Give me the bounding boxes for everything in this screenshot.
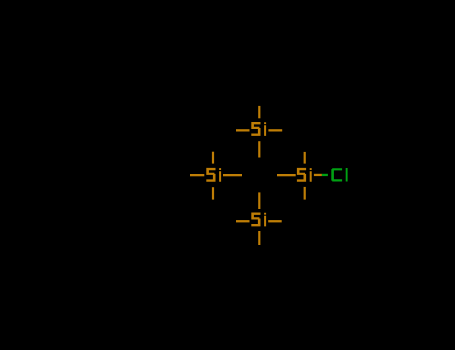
atom Cl1 (chlorine) label "Cl" — [331, 168, 347, 182]
atom Si1 (top silicon) label "Si" — [251, 122, 266, 136]
atom Si2 (left silicon) label "Si" — [206, 168, 221, 182]
bond Si4-CH3 right — [268, 220, 282, 222]
atom Si3 (right silicon) label "Si" — [297, 168, 312, 182]
bond Si3-Cl green half — [322, 174, 328, 176]
bond Si1-CH3 left — [236, 129, 250, 131]
bond Si2-CH3 left — [190, 174, 204, 176]
bond C-Si3 left — [277, 174, 296, 176]
atom Si4 (bottom silicon) label "Si" — [251, 213, 266, 227]
bond Si2-CH3 up — [212, 152, 214, 164]
bond Si3-CH3 up — [304, 152, 306, 164]
bond Si4-CH3 left — [236, 220, 250, 222]
bond Si2-CH3 down — [212, 187, 214, 199]
bond Si1-C down — [258, 141, 260, 157]
bond Si3-Cl orange half — [314, 174, 322, 176]
bond Si4-CH3 down — [258, 231, 260, 245]
bond Si2-C right — [223, 174, 242, 176]
bond Si1-CH3 right — [268, 129, 282, 131]
bond C-Si4 up — [258, 192, 260, 209]
bond Si1-CH3 up — [258, 106, 260, 118]
bond Si3-CH3 down — [304, 187, 306, 200]
